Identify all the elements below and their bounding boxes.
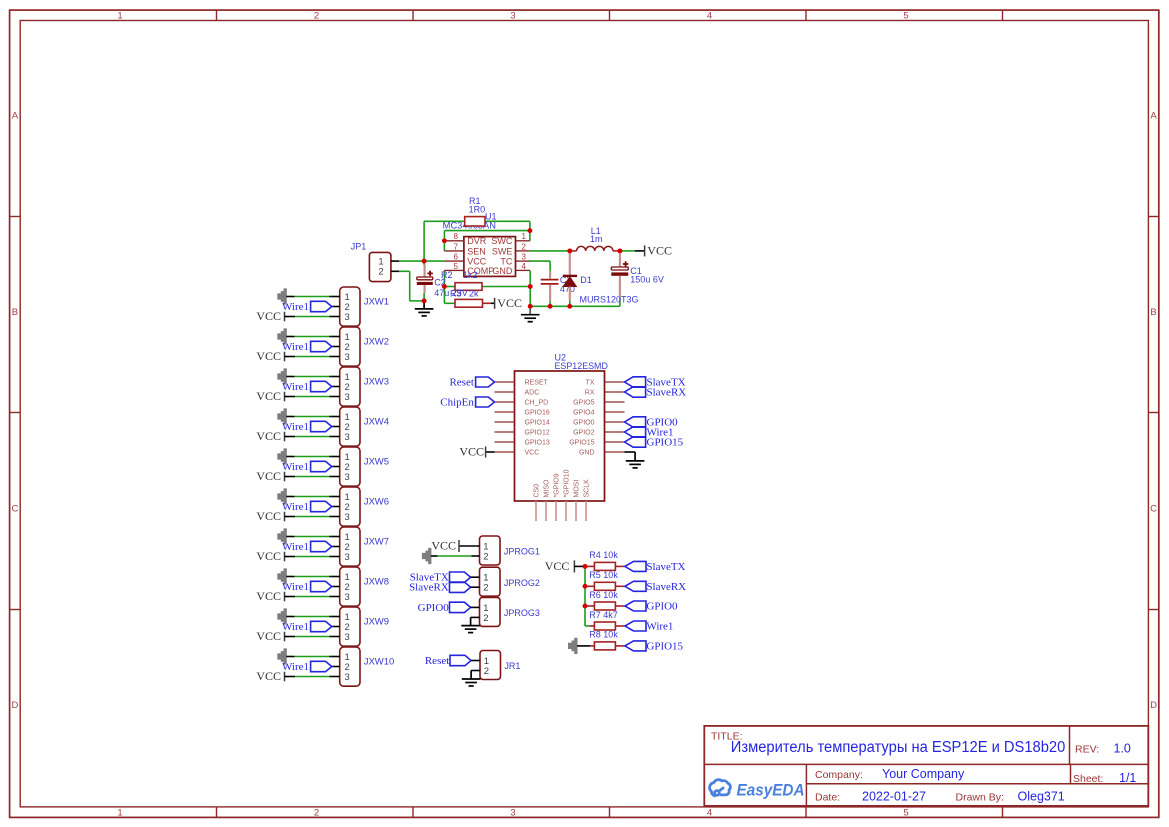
svg-text:4: 4 [707, 807, 712, 818]
svg-text:A: A [1150, 110, 1157, 121]
svg-text:Drawn By:: Drawn By: [956, 792, 1004, 804]
svg-text:Company:: Company: [815, 769, 863, 781]
svg-text:GPIO14: GPIO14 [525, 419, 550, 426]
svg-text:8: 8 [454, 232, 459, 241]
svg-text:*GPIO9: *GPIO9 [554, 473, 561, 497]
svg-text:RESET: RESET [525, 379, 549, 386]
svg-text:R7 4k7: R7 4k7 [589, 610, 618, 620]
svg-text:3: 3 [345, 552, 350, 563]
svg-text:MURS120T3G: MURS120T3G [580, 295, 639, 305]
svg-text:JXW9: JXW9 [364, 617, 389, 628]
svg-text:SlaveRX: SlaveRX [647, 387, 687, 399]
svg-text:1m: 1m [590, 234, 603, 244]
svg-text:VCC: VCC [256, 509, 281, 523]
svg-text:JXW7: JXW7 [364, 537, 389, 548]
svg-text:Wire1: Wire1 [282, 581, 309, 593]
svg-text:VCC: VCC [256, 549, 281, 563]
svg-text:Wire1: Wire1 [282, 301, 309, 313]
svg-text:1: 1 [117, 807, 122, 818]
svg-text:Wire1: Wire1 [282, 621, 309, 633]
svg-text:SWC: SWC [491, 236, 512, 246]
svg-text:Wire1: Wire1 [282, 381, 309, 393]
svg-text:JPROG2: JPROG2 [504, 578, 540, 588]
svg-text:Date:: Date: [815, 792, 840, 804]
svg-text:2: 2 [483, 583, 488, 594]
svg-text:B: B [12, 307, 18, 318]
svg-text:Oleg371: Oleg371 [1018, 790, 1065, 804]
svg-text:VCC: VCC [497, 296, 522, 310]
svg-text:VCC: VCC [256, 389, 281, 403]
svg-text:GPIO15: GPIO15 [647, 437, 684, 449]
svg-text:2k: 2k [469, 288, 479, 298]
svg-text:JXW10: JXW10 [364, 657, 395, 668]
svg-text:3: 3 [345, 432, 350, 443]
svg-text:Wire1: Wire1 [282, 541, 309, 553]
svg-text:3: 3 [345, 632, 350, 643]
svg-text:2022-01-27: 2022-01-27 [862, 790, 926, 804]
svg-text:Wire1: Wire1 [282, 341, 309, 353]
svg-text:JXW3: JXW3 [364, 377, 389, 388]
svg-text:JXW8: JXW8 [364, 577, 389, 588]
svg-text:GND: GND [579, 449, 595, 456]
svg-text:2: 2 [522, 242, 527, 251]
svg-text:3: 3 [345, 312, 350, 323]
svg-text:JXW4: JXW4 [364, 417, 389, 428]
svg-text:1: 1 [522, 232, 527, 241]
svg-text:JXW2: JXW2 [364, 337, 389, 348]
svg-text:3: 3 [345, 592, 350, 603]
svg-text:GPIO0: GPIO0 [646, 601, 678, 613]
svg-text:CH_PD: CH_PD [525, 399, 549, 406]
svg-text:5: 5 [903, 11, 908, 22]
svg-text:C: C [11, 503, 18, 514]
svg-text:SWE: SWE [492, 246, 513, 256]
svg-text:3: 3 [510, 807, 515, 818]
svg-text:3: 3 [510, 11, 515, 22]
svg-text:D: D [11, 700, 18, 711]
svg-text:4: 4 [707, 11, 712, 22]
svg-text:2: 2 [483, 613, 488, 624]
svg-text:VCC: VCC [256, 349, 281, 363]
svg-text:GPIO0: GPIO0 [418, 602, 450, 614]
svg-text:Reset: Reset [425, 655, 449, 667]
svg-text:JP1: JP1 [351, 241, 367, 251]
svg-text:2: 2 [483, 551, 488, 562]
svg-text:C: C [1150, 503, 1157, 514]
svg-text:RX: RX [585, 389, 595, 396]
svg-text:JXW5: JXW5 [364, 457, 389, 468]
svg-text:2: 2 [314, 807, 319, 818]
svg-text:Wire1: Wire1 [646, 621, 673, 633]
svg-text:4: 4 [522, 262, 527, 271]
svg-text:VCC: VCC [256, 309, 281, 323]
svg-text:GPIO16: GPIO16 [525, 409, 550, 416]
svg-text:VCC: VCC [525, 449, 540, 456]
svg-text:CS0: CS0 [534, 484, 541, 498]
svg-text:SEN: SEN [467, 246, 486, 256]
svg-text:GPIO15: GPIO15 [646, 640, 683, 652]
svg-text:B: B [1150, 307, 1156, 318]
svg-text:VCC: VCC [647, 243, 672, 257]
svg-text:3: 3 [345, 512, 350, 523]
svg-text:R6 10k: R6 10k [589, 590, 618, 600]
svg-text:2: 2 [314, 11, 319, 22]
svg-text:MOSI: MOSI [574, 480, 581, 498]
svg-text:EasyEDA: EasyEDA [737, 780, 805, 799]
svg-text:GPIO5: GPIO5 [573, 399, 595, 406]
svg-text:DVR: DVR [467, 236, 487, 246]
svg-text:D1: D1 [580, 275, 592, 285]
svg-text:1: 1 [117, 11, 122, 22]
svg-text:GND: GND [492, 266, 513, 276]
svg-text:Wire1: Wire1 [282, 501, 309, 513]
svg-text:GPIO12: GPIO12 [525, 429, 550, 436]
svg-text:3: 3 [345, 352, 350, 363]
svg-text:VCC: VCC [545, 559, 570, 573]
svg-text:*GPIO10: *GPIO10 [564, 469, 571, 497]
svg-text:VCC: VCC [256, 429, 281, 443]
svg-text:D: D [1150, 700, 1157, 711]
svg-text:VCC: VCC [431, 538, 456, 552]
svg-text:VCC: VCC [256, 589, 281, 603]
svg-text:1R0: 1R0 [469, 205, 486, 215]
svg-text:GPIO13: GPIO13 [525, 439, 550, 446]
svg-text:3: 3 [522, 253, 527, 262]
svg-text:5: 5 [903, 807, 908, 818]
svg-text:ADC: ADC [525, 389, 540, 396]
svg-text:JPROG3: JPROG3 [504, 608, 540, 618]
svg-text:1.0: 1.0 [1114, 742, 1131, 756]
svg-text:VCC: VCC [256, 629, 281, 643]
svg-text:7: 7 [454, 242, 459, 251]
svg-text:2: 2 [378, 267, 383, 278]
svg-text:3: 3 [345, 472, 350, 483]
svg-text:VCC: VCC [256, 669, 281, 683]
svg-text:SlaveTX: SlaveTX [646, 561, 685, 573]
svg-text:GPIO15: GPIO15 [569, 439, 594, 446]
svg-text:Wire1: Wire1 [282, 461, 309, 473]
svg-text:Sheet:: Sheet: [1073, 773, 1103, 785]
svg-text:JXW1: JXW1 [364, 297, 389, 308]
svg-text:VCC: VCC [256, 469, 281, 483]
svg-text:R4 10k: R4 10k [589, 550, 618, 560]
svg-text:TX: TX [586, 379, 595, 386]
svg-text:150u 6V: 150u 6V [630, 274, 664, 284]
svg-text:ESP12ESMD: ESP12ESMD [555, 361, 609, 371]
svg-text:6: 6 [454, 253, 459, 262]
svg-text:Wire1: Wire1 [282, 421, 309, 433]
svg-text:SlaveRX: SlaveRX [646, 581, 686, 593]
svg-text:Wire1: Wire1 [282, 661, 309, 673]
svg-text:JR1: JR1 [504, 661, 520, 671]
svg-text:1/1: 1/1 [1119, 771, 1136, 785]
svg-text:SCLK: SCLK [584, 479, 591, 498]
svg-text:Your Company: Your Company [882, 767, 965, 781]
svg-text:JXW6: JXW6 [364, 497, 389, 508]
svg-text:Reset: Reset [449, 377, 473, 389]
svg-text:R3: R3 [450, 288, 462, 298]
svg-text:R8 10k: R8 10k [589, 630, 618, 640]
svg-text:SlaveRX: SlaveRX [409, 582, 449, 594]
svg-text:3: 3 [345, 392, 350, 403]
svg-text:1k2: 1k2 [463, 270, 478, 280]
svg-text:R5 10k: R5 10k [589, 570, 618, 580]
svg-text:A: A [12, 110, 19, 121]
svg-text:ChipEn: ChipEn [440, 397, 474, 409]
svg-text:2: 2 [484, 666, 489, 677]
svg-text:GPIO2: GPIO2 [573, 429, 595, 436]
svg-text:MISO: MISO [544, 479, 551, 497]
svg-text:JPROG1: JPROG1 [504, 547, 540, 557]
svg-text:VCC: VCC [459, 444, 484, 458]
svg-text:Измеритель температуры на ESP1: Измеритель температуры на ESP12E и DS18b… [731, 739, 1066, 756]
svg-text:5: 5 [454, 262, 459, 271]
svg-text:3: 3 [345, 672, 350, 683]
svg-text:GPIO0: GPIO0 [573, 419, 595, 426]
svg-text:REV:: REV: [1075, 744, 1099, 756]
svg-text:GPIO4: GPIO4 [573, 409, 595, 416]
